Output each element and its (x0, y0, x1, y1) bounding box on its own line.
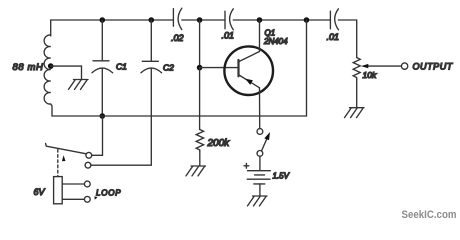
connector J1 6V plug box (54, 177, 63, 204)
wire top rail segment 3 (C4 to C5) (233, 19, 330, 21)
transistor Q1 2N404 (224, 46, 273, 95)
svg-text:SeekIC.com: SeekIC.com (402, 209, 457, 221)
node base junction dot (197, 65, 203, 71)
wire base branch down to 200k (199, 68, 201, 130)
wire emitter vertical to switch (259, 88, 261, 129)
node top rail C2 junction dot (149, 17, 155, 23)
svg-text:1.5V: 1.5V (273, 172, 290, 181)
node bus C1 junction dot (100, 113, 106, 119)
terminal OUTPUT circle (401, 63, 407, 69)
svg-text:.01: .01 (222, 31, 235, 41)
svg-text:OUTPUT: OUTPUT (413, 62, 454, 72)
wiper arrow of pot (361, 64, 401, 68)
switch S2 loop key blade (46, 143, 87, 153)
switch S1 blade with arrow (262, 132, 271, 151)
svg-text:200k: 200k (207, 138, 231, 149)
svg-text:2N404: 2N404 (263, 37, 288, 46)
resistor R2 10k potentiometer (353, 58, 360, 80)
svg-text:88 mH: 88 mH (13, 62, 44, 73)
capacitor C4 value .01 (225, 9, 233, 30)
wire top rail segment 2 (C3 to C4) (182, 19, 225, 21)
arrow on linkage (62, 155, 66, 161)
capacitor C1 (92, 20, 113, 116)
svg-text:6V: 6V (34, 187, 46, 197)
switch S1 contact upper (257, 129, 263, 135)
node top rail C1 junction dot (100, 17, 106, 23)
node coil tap junction dot (48, 63, 54, 69)
node top rail base junction dot (197, 17, 203, 23)
capacitor C5 value .01 (330, 9, 338, 30)
ground (pot) (345, 108, 365, 118)
wire collector vertical (259, 20, 261, 52)
battery B1 1.5V (244, 163, 270, 184)
svg-text:C2: C2 (163, 63, 174, 73)
svg-text:C1: C1 (116, 62, 127, 72)
wire S2 lower contact to C2 leg (91, 116, 151, 165)
terminal LOOP upper circle (84, 181, 90, 187)
wire switch to battery (259, 156, 261, 170)
ground (200k) (186, 166, 206, 176)
wire S2 upper contact to bus (92, 116, 103, 155)
resistor R1 200k (196, 130, 203, 152)
switch S1 contact lower (257, 151, 263, 157)
svg-text:.01: .01 (327, 32, 340, 42)
wire feedback vertical and bottom bus (52, 20, 307, 116)
inductor L1 88 mH (44, 35, 51, 104)
wire J1 upper terminal (62, 183, 84, 185)
node top rail collector junction dot (257, 17, 263, 23)
ground (battery) (248, 196, 268, 206)
svg-text:LOOP: LOOP (96, 189, 121, 198)
wire base branch vertical (199, 20, 201, 68)
mechanical linkage dashed line (57, 150, 59, 177)
switch S2 contact lower (85, 162, 91, 168)
wire pot bottom to ground (356, 79, 358, 107)
ground (coil tap) (69, 80, 89, 90)
capacitor C2 (141, 20, 162, 116)
wire J1 lower terminal (62, 198, 84, 200)
node top rail feedback junction dot (304, 17, 310, 23)
wire 200k bottom to ground (199, 152, 201, 166)
terminal LOOP lower circle (84, 196, 90, 202)
wire top rail segment 4 (C5 to pot corner) (338, 20, 356, 58)
wire battery to ground (259, 184, 261, 196)
svg-text:10k: 10k (363, 70, 377, 80)
svg-text:.02: .02 (171, 33, 184, 43)
wire base lead to transistor (200, 67, 239, 69)
wire top rail segment 1 (coil top to C3 left plate) (51, 20, 174, 36)
wire coil tap to ground (51, 66, 82, 79)
wire coil bottom to bus corner (51, 104, 52, 116)
capacitor C3 value .02 (173, 8, 181, 29)
switch S2 contact upper (86, 152, 92, 158)
arrow before LOOP label (95, 196, 98, 199)
